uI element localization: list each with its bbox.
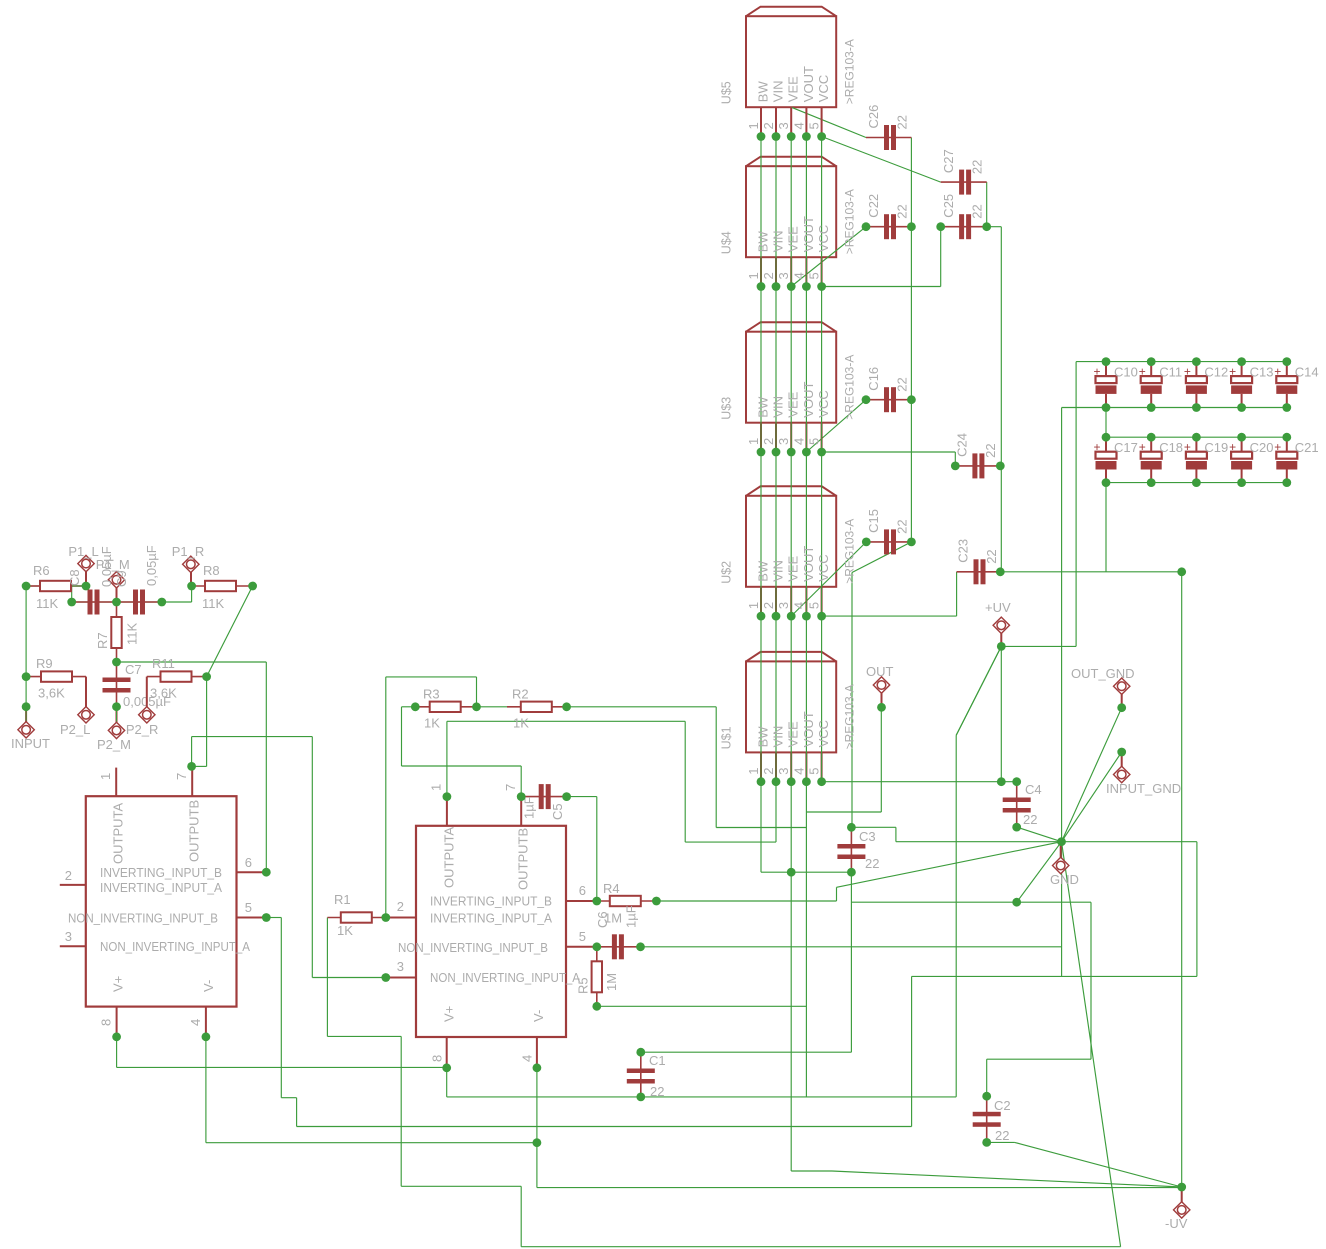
svg-text:INVERTING_INPUT_A: INVERTING_INPUT_A	[430, 911, 552, 926]
svg-text:OUTPUTB: OUTPUTB	[516, 828, 531, 890]
svg-text:+: +	[1094, 365, 1101, 379]
svg-text:R7: R7	[95, 632, 110, 649]
svg-text:R9: R9	[36, 656, 53, 671]
svg-text:VCC: VCC	[816, 720, 831, 747]
svg-text:C22: C22	[866, 194, 881, 218]
svg-text:P1_R: P1_R	[172, 544, 205, 559]
svg-text:C3: C3	[859, 829, 876, 844]
svg-text:C1: C1	[649, 1053, 666, 1068]
svg-text:1K: 1K	[513, 716, 529, 731]
svg-text:>REG103-A: >REG103-A	[843, 39, 857, 104]
svg-text:1: 1	[746, 602, 761, 609]
svg-text:C10: C10	[1114, 365, 1138, 380]
svg-text:2: 2	[761, 602, 776, 609]
svg-text:C5: C5	[550, 803, 565, 820]
svg-text:C20: C20	[1250, 440, 1274, 455]
svg-text:OUTPUTA: OUTPUTA	[111, 803, 126, 864]
svg-text:VCC: VCC	[816, 390, 831, 417]
svg-text:22: 22	[1023, 812, 1037, 827]
svg-text:BW: BW	[755, 396, 770, 418]
svg-text:8: 8	[430, 1055, 445, 1062]
svg-text:0,05µF: 0,05µF	[144, 545, 159, 586]
svg-text:R1: R1	[334, 892, 351, 907]
svg-text:5: 5	[807, 438, 822, 445]
svg-text:VCC: VCC	[816, 554, 831, 581]
svg-text:3: 3	[397, 959, 404, 974]
svg-text:V+: V+	[441, 1006, 456, 1022]
svg-text:5: 5	[807, 272, 822, 279]
svg-text:R5: R5	[576, 977, 591, 994]
svg-text:VCC: VCC	[816, 75, 831, 102]
svg-text:C24: C24	[954, 433, 969, 457]
svg-text:VEE: VEE	[786, 391, 801, 417]
svg-text:NON_INVERTING_INPUT_A: NON_INVERTING_INPUT_A	[430, 970, 580, 985]
svg-text:2: 2	[397, 899, 404, 914]
svg-text:3: 3	[776, 122, 791, 129]
svg-text:3: 3	[776, 272, 791, 279]
svg-text:U$4: U$4	[720, 231, 734, 254]
svg-text:R3: R3	[423, 687, 440, 702]
svg-text:C4: C4	[1025, 782, 1042, 797]
svg-text:C26: C26	[866, 105, 881, 129]
svg-text:1: 1	[746, 767, 761, 774]
svg-text:VOUT: VOUT	[801, 711, 816, 747]
svg-text:+: +	[1229, 365, 1236, 379]
svg-text:3: 3	[776, 438, 791, 445]
svg-text:+: +	[1274, 365, 1281, 379]
svg-text:22: 22	[970, 160, 985, 174]
svg-text:11K: 11K	[36, 596, 58, 611]
svg-text:4: 4	[791, 767, 806, 774]
svg-text:C9: C9	[114, 570, 129, 587]
svg-text:22: 22	[984, 549, 999, 563]
svg-text:INVERTING_INPUT_B: INVERTING_INPUT_B	[430, 894, 552, 909]
svg-text:NON_INVERTING_INPUT_B: NON_INVERTING_INPUT_B	[68, 911, 218, 926]
svg-text:V-: V-	[531, 1010, 546, 1022]
svg-text:C2: C2	[994, 1098, 1011, 1113]
svg-text:VIN: VIN	[770, 560, 785, 582]
svg-text:2: 2	[761, 767, 776, 774]
svg-text:>REG103-A: >REG103-A	[843, 519, 857, 584]
svg-text:+: +	[1139, 365, 1146, 379]
svg-text:2: 2	[761, 122, 776, 129]
svg-text:U$5: U$5	[720, 81, 734, 104]
svg-text:VEE: VEE	[786, 555, 801, 581]
svg-text:+UV: +UV	[985, 600, 1011, 615]
svg-text:INPUT_GND: INPUT_GND	[1106, 781, 1181, 796]
svg-text:VIN: VIN	[770, 726, 785, 748]
svg-text:+: +	[1229, 440, 1236, 454]
svg-text:P2_R: P2_R	[126, 722, 159, 737]
svg-text:1: 1	[746, 438, 761, 445]
svg-text:7: 7	[503, 784, 518, 791]
svg-text:-UV: -UV	[1165, 1216, 1188, 1231]
svg-text:OUTPUTB: OUTPUTB	[187, 800, 202, 862]
svg-text:1M: 1M	[604, 973, 619, 991]
svg-text:C6: C6	[595, 911, 610, 928]
svg-text:BW: BW	[755, 726, 770, 748]
svg-text:1: 1	[429, 784, 444, 791]
svg-text:C17: C17	[1114, 440, 1138, 455]
svg-text:C15: C15	[866, 509, 881, 533]
svg-text:NON_INVERTING_INPUT_A: NON_INVERTING_INPUT_A	[100, 939, 250, 954]
svg-text:2: 2	[65, 868, 72, 883]
svg-text:22: 22	[895, 519, 910, 533]
svg-text:C27: C27	[941, 149, 956, 173]
svg-text:P2_M: P2_M	[97, 737, 131, 752]
svg-text:2: 2	[761, 438, 776, 445]
svg-text:P1_L: P1_L	[68, 544, 98, 559]
svg-text:C16: C16	[866, 367, 881, 391]
svg-text:7: 7	[174, 773, 189, 780]
svg-text:C12: C12	[1204, 365, 1228, 380]
svg-text:OUT_GND: OUT_GND	[1071, 666, 1135, 681]
svg-text:5: 5	[807, 122, 822, 129]
svg-text:1: 1	[98, 773, 113, 780]
svg-text:C14: C14	[1295, 365, 1319, 380]
svg-text:4: 4	[791, 602, 806, 609]
svg-text:11K: 11K	[125, 623, 140, 645]
svg-text:22: 22	[895, 204, 910, 218]
svg-text:22: 22	[983, 443, 998, 457]
svg-text:1K: 1K	[337, 923, 353, 938]
svg-text:5: 5	[579, 929, 586, 944]
svg-text:U$3: U$3	[720, 397, 734, 420]
svg-text:VOUT: VOUT	[801, 66, 816, 102]
svg-text:2: 2	[761, 272, 776, 279]
svg-text:C7: C7	[125, 662, 142, 677]
svg-text:11K: 11K	[202, 596, 224, 611]
svg-text:VEE: VEE	[786, 226, 801, 252]
svg-text:VIN: VIN	[770, 81, 785, 103]
svg-text:VEE: VEE	[786, 76, 801, 102]
svg-text:22: 22	[650, 1084, 664, 1099]
svg-text:3: 3	[65, 929, 72, 944]
svg-text:R8: R8	[203, 563, 220, 578]
svg-text:4: 4	[520, 1055, 535, 1062]
svg-text:C21: C21	[1295, 440, 1319, 455]
svg-text:U$2: U$2	[720, 561, 734, 584]
svg-text:3,6K: 3,6K	[38, 686, 65, 701]
svg-text:3: 3	[776, 602, 791, 609]
svg-text:>REG103-A: >REG103-A	[843, 355, 857, 420]
svg-text:1: 1	[746, 122, 761, 129]
svg-text:INVERTING_INPUT_B: INVERTING_INPUT_B	[100, 865, 222, 880]
svg-text:R11: R11	[152, 656, 175, 671]
svg-text:>REG103-A: >REG103-A	[843, 684, 857, 749]
svg-text:C8: C8	[67, 569, 82, 586]
svg-text:4: 4	[188, 1019, 203, 1026]
svg-text:22: 22	[995, 1128, 1009, 1143]
svg-text:C19: C19	[1204, 440, 1228, 455]
svg-text:0,05µF: 0,05µF	[99, 546, 114, 587]
svg-text:+: +	[1274, 440, 1281, 454]
svg-text:VOUT: VOUT	[801, 382, 816, 418]
svg-text:+: +	[1139, 440, 1146, 454]
svg-text:R6: R6	[33, 563, 50, 578]
svg-text:R2: R2	[512, 687, 529, 702]
svg-text:4: 4	[791, 122, 806, 129]
svg-text:VOUT: VOUT	[801, 546, 816, 582]
svg-text:+: +	[1184, 365, 1191, 379]
svg-text:6: 6	[579, 883, 586, 898]
svg-text:3: 3	[776, 767, 791, 774]
svg-text:U$1: U$1	[720, 726, 734, 749]
svg-text:C25: C25	[941, 194, 956, 218]
svg-text:22: 22	[895, 115, 910, 129]
svg-text:C23: C23	[956, 539, 971, 563]
svg-text:8: 8	[99, 1019, 114, 1026]
svg-text:+: +	[1184, 440, 1191, 454]
svg-text:V+: V+	[111, 976, 126, 992]
svg-text:GND: GND	[1050, 872, 1079, 887]
svg-text:VIN: VIN	[770, 396, 785, 418]
svg-text:22: 22	[865, 856, 879, 871]
svg-text:4: 4	[791, 438, 806, 445]
svg-text:5: 5	[245, 900, 252, 915]
svg-text:1µF: 1µF	[624, 905, 639, 928]
svg-text:VEE: VEE	[786, 721, 801, 747]
svg-text:BW: BW	[755, 560, 770, 582]
svg-text:+: +	[1094, 440, 1101, 454]
svg-text:4: 4	[791, 272, 806, 279]
svg-text:22: 22	[970, 204, 985, 218]
svg-text:VCC: VCC	[816, 225, 831, 252]
svg-text:5: 5	[807, 602, 822, 609]
svg-text:NON_INVERTING_INPUT_B: NON_INVERTING_INPUT_B	[398, 940, 548, 955]
svg-text:5: 5	[807, 767, 822, 774]
svg-text:6: 6	[245, 855, 252, 870]
svg-text:BW: BW	[755, 231, 770, 253]
svg-text:INVERTING_INPUT_A: INVERTING_INPUT_A	[100, 880, 222, 895]
svg-text:VIN: VIN	[770, 231, 785, 253]
svg-text:BW: BW	[755, 81, 770, 103]
svg-text:1: 1	[746, 272, 761, 279]
svg-text:1K: 1K	[424, 716, 440, 731]
svg-text:V-: V-	[201, 980, 216, 992]
svg-text:OUTPUTA: OUTPUTA	[441, 827, 456, 888]
svg-text:VOUT: VOUT	[801, 216, 816, 252]
svg-text:P2_L: P2_L	[60, 722, 90, 737]
svg-text:C13: C13	[1250, 365, 1274, 380]
svg-text:R4: R4	[603, 881, 620, 896]
svg-text:>REG103-A: >REG103-A	[843, 189, 857, 254]
svg-text:INPUT: INPUT	[11, 736, 50, 751]
svg-text:22: 22	[895, 377, 910, 391]
svg-text:C11: C11	[1159, 365, 1182, 380]
svg-text:C18: C18	[1159, 440, 1183, 455]
svg-text:OUT: OUT	[866, 664, 894, 679]
